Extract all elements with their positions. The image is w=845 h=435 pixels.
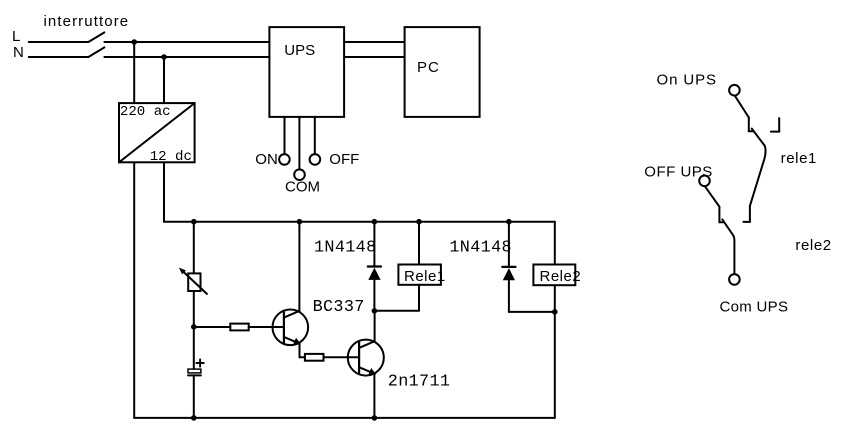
wire N node down to transformer (163, 57, 165, 103)
terminal ON (279, 154, 290, 165)
transformer 220ac/12dc box (119, 103, 195, 162)
svg-text:PC: PC (417, 59, 440, 76)
wire bus to variable resistor (193, 222, 195, 274)
wire rele1 down (418, 285, 420, 311)
wire bus to diode1 (373, 222, 375, 267)
terminal OFF (310, 154, 321, 165)
switch blade N (88, 47, 104, 57)
svg-text:Com UPS: Com UPS (720, 299, 789, 316)
wire UPS COM terminal (298, 117, 300, 169)
node on N line (161, 54, 167, 60)
node bottom bus cap branch (191, 415, 197, 421)
transistor Q1 BC337 (273, 310, 309, 346)
wire var resistor to node (193, 291, 195, 369)
diode D1 1N4148 (368, 265, 381, 267)
node bottom bus emitter branch (372, 415, 378, 421)
node bus rele1 (416, 219, 422, 225)
wire bus to BC337 collector (298, 222, 300, 312)
wire 2n1711 collector up (374, 311, 376, 341)
terminal COM (294, 169, 305, 180)
wire transformer right output down (163, 162, 165, 221)
PC box (405, 27, 480, 117)
terminal OFF UPS (699, 176, 710, 187)
wire bus corner down through rele2 (554, 222, 556, 265)
wire transformer left output down (133, 162, 135, 418)
switch rele1 contact (735, 96, 749, 118)
wire emitter to resistor (300, 356, 305, 358)
wire top bus (164, 221, 555, 223)
svg-text:rele2: rele2 (795, 237, 831, 254)
wire bottom bus (134, 417, 555, 419)
svg-text:UPS: UPS (284, 42, 315, 59)
svg-text:2n1711: 2n1711 (388, 373, 451, 392)
svg-text:Rele2: Rele2 (540, 268, 582, 285)
wire diode2 node to rele2 node (509, 311, 555, 313)
wire base resistor to BC337 (249, 326, 284, 328)
wire bus to diode2 (508, 222, 510, 267)
terminal On UPS (729, 85, 740, 96)
wire L line left (29, 41, 89, 43)
terminal Com UPS (729, 274, 740, 285)
svg-text:BC337: BC337 (313, 298, 365, 317)
wire UPS ON terminal (284, 117, 286, 154)
wire N line right (104, 56, 269, 58)
wire UPS OFF terminal (314, 117, 316, 154)
node bus diode2 (506, 219, 512, 225)
node on L line (131, 39, 137, 45)
wire UPS-PC upper (344, 41, 405, 43)
wire diode1 to node (373, 280, 375, 311)
svg-text:COM: COM (285, 179, 320, 196)
node bus BC337 collector (297, 219, 303, 225)
svg-text:OFF: OFF (329, 151, 359, 168)
capacitor plate bottom (188, 374, 201, 376)
svg-text:1N4148: 1N4148 (314, 238, 377, 257)
wire diode2 to node (508, 280, 510, 312)
variable resistor arrow (184, 272, 207, 294)
wire node to base resistor (194, 326, 231, 328)
node bus var-resistor (191, 219, 197, 225)
svg-text:interruttore: interruttore (44, 13, 130, 30)
wire 2n1711 emitter down (373, 374, 375, 418)
svg-text:On UPS: On UPS (657, 72, 717, 89)
svg-text:rele1: rele1 (781, 150, 817, 167)
wire L node down to transformer (133, 42, 135, 103)
wire rele1 to diode1 node (374, 310, 419, 312)
wire rele2 down to bottom bus (554, 285, 556, 418)
svg-text:Rele1: Rele1 (404, 268, 446, 285)
svg-text:ON: ON (255, 151, 277, 168)
node base branch (191, 324, 197, 330)
wire N line left (29, 56, 89, 58)
node rele2 bottom (552, 309, 558, 315)
wire BC337 emitter down (299, 343, 301, 357)
resistor base (230, 324, 248, 331)
transistor Q2 2n1711 (348, 340, 384, 376)
node bus diode1 (372, 219, 378, 225)
wire capacitor to bottom bus (193, 375, 195, 418)
UPS box (269, 27, 344, 117)
svg-text:L: L (12, 28, 20, 45)
switch rele1 open throw (778, 118, 780, 132)
capacitor battery plus (196, 359, 203, 366)
wire UPS-PC lower (344, 56, 405, 58)
wire L line right (104, 41, 269, 43)
svg-text:1N4148: 1N4148 (449, 238, 512, 257)
wire bus to rele1 (418, 222, 420, 265)
relay Rele2 box (533, 265, 575, 286)
capacitor plate top (hollow electrode) (188, 369, 201, 373)
resistor emitter (305, 354, 324, 361)
variable resistor R1 (188, 273, 200, 291)
node diode1 rele1 (372, 308, 378, 314)
relay Rele1 box (398, 265, 441, 285)
svg-text:OFF UPS: OFF UPS (644, 164, 713, 181)
switch rele2 contact (705, 186, 719, 206)
svg-text:N: N (13, 44, 24, 61)
svg-text:12 dc: 12 dc (150, 149, 192, 165)
wire resistor to 2n1711 base (324, 356, 360, 358)
diode D2 1N4148 (502, 266, 515, 268)
switch blade L (88, 32, 104, 42)
svg-text:220 ac: 220 ac (120, 104, 171, 120)
